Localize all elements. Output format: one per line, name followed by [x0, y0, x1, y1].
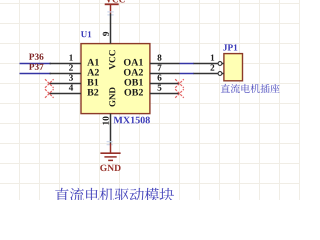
pin 1 A1 [50, 63, 82, 65]
connector JP1 body [224, 54, 243, 81]
pin 4 B2 [50, 93, 82, 95]
pin 6 OB1 [150, 83, 180, 85]
net label P36 [29, 54, 44, 60]
junction marker at VCC stem [107, 12, 113, 15]
pin 7 OA2 [150, 73, 180, 75]
JP1 pin 2 [194, 73, 224, 75]
pin 3 B1 [50, 83, 82, 85]
power symbol GND [100, 144, 120, 161]
wire OA1 to JP1 pin 1 [180, 63, 195, 65]
JP1 pin 1 [194, 63, 224, 65]
comment MX1508 [114, 117, 150, 124]
wire net P36 [20, 63, 52, 65]
power symbol VCC [105, 0, 125, 14]
wire OA2 to JP1 pin 2 [180, 73, 195, 75]
no-ERC marker on pin 6 [175, 79, 184, 88]
no-ERC marker on pin 5 [175, 89, 184, 98]
designator JP1 [223, 44, 237, 50]
pin 9 VCC top [110, 14, 112, 44]
pin 2 A2 [50, 73, 82, 75]
annotation DC motor socket (zhi liu dian ji cha zuo) [221, 84, 280, 93]
pin 8 OA1 [150, 63, 180, 65]
pin 5 OB2 [150, 93, 180, 95]
no-ERC marker on pin 4 [45, 89, 54, 98]
pin 10 GND bottom [110, 114, 112, 144]
IC U1 MX1508 component body [81, 44, 150, 114]
no-ERC marker on pin 3 [45, 79, 54, 88]
designator U1 [81, 31, 91, 37]
junction marker at GND stem [107, 142, 113, 145]
net label P37 [29, 64, 44, 70]
wire net P37 [20, 73, 52, 75]
net name GND [100, 165, 120, 171]
annotation DC motor drive module (zhi liu dian ji qu dong mo kuai) [55, 188, 174, 202]
